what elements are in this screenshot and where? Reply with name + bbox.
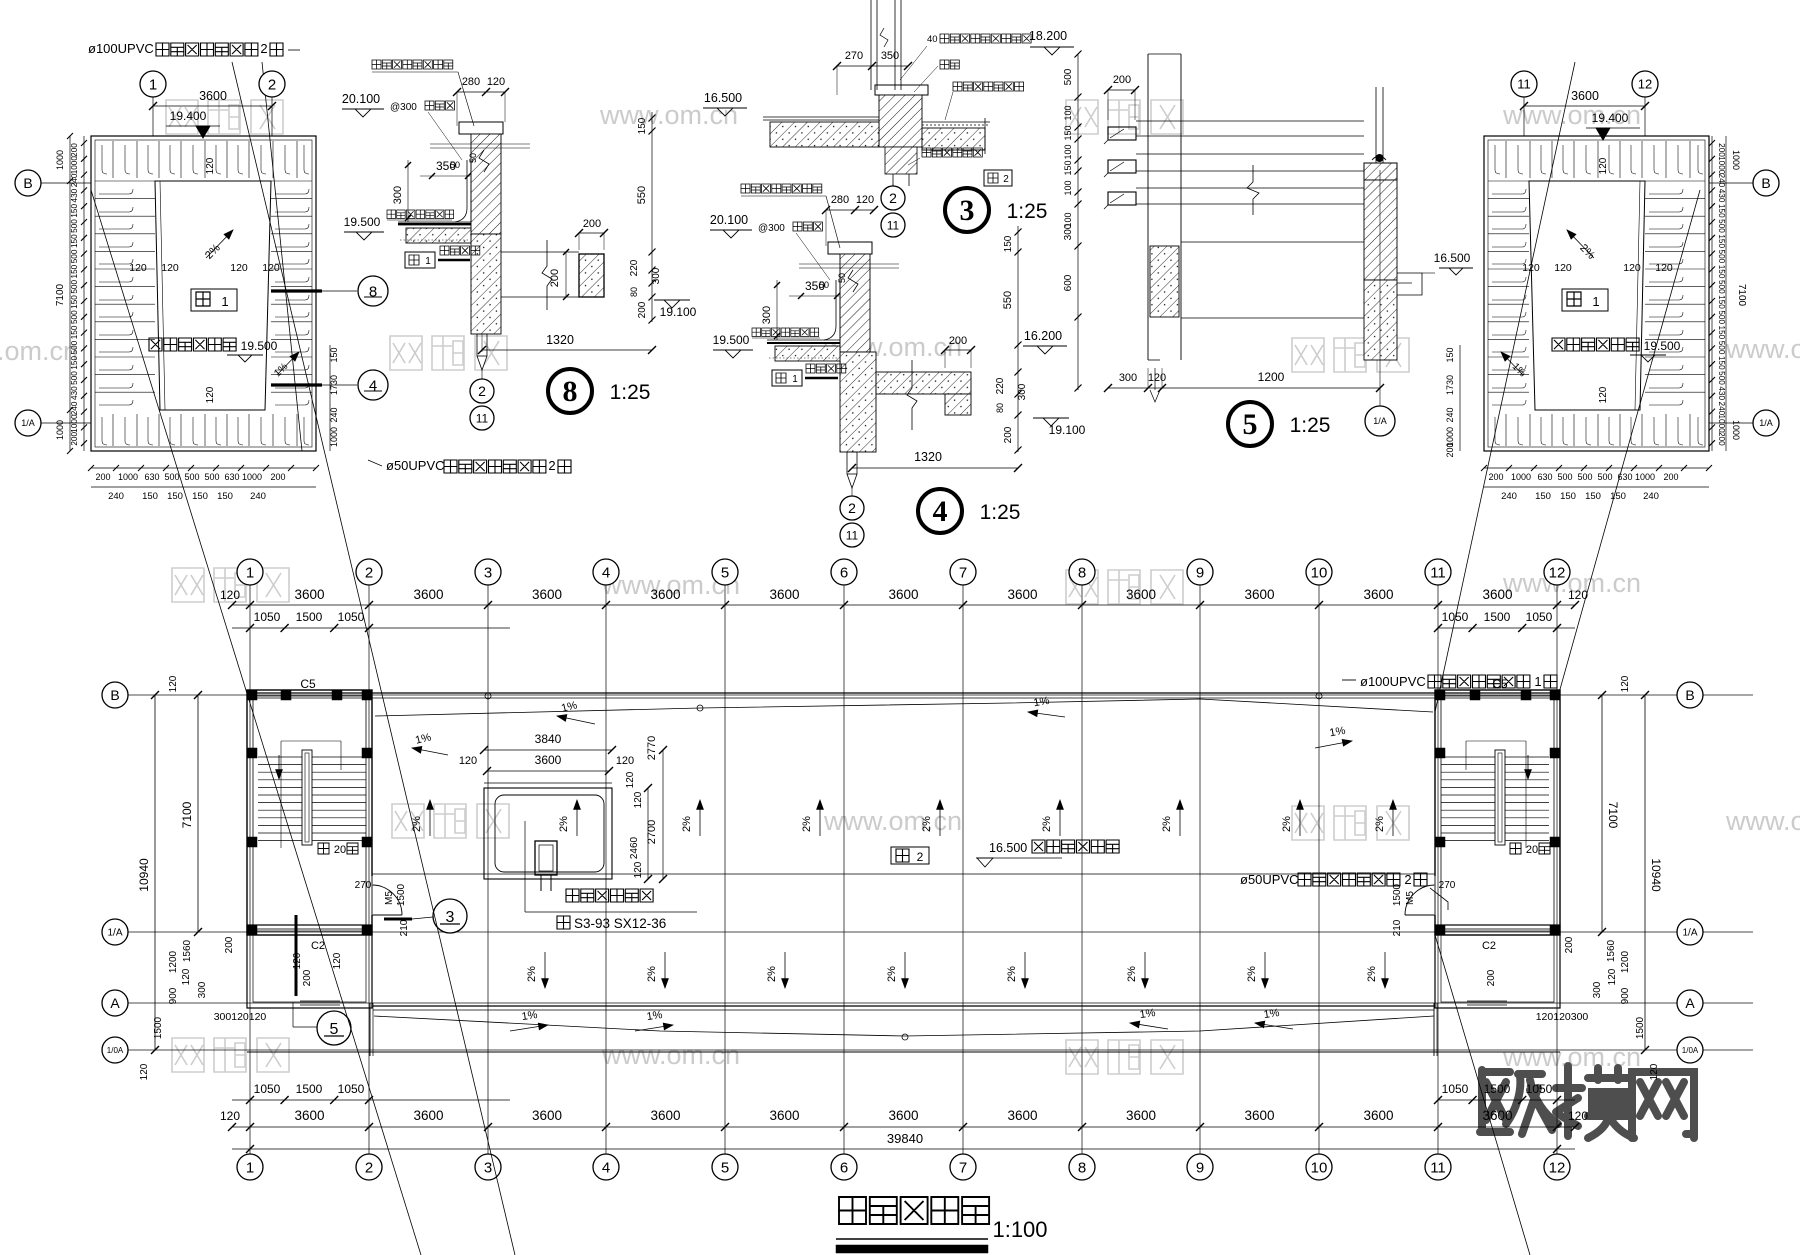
detail plan slope arrow 2pct	[1567, 230, 1594, 258]
D4 parapet wall hatched	[840, 254, 870, 352]
D3 parapet cap	[875, 85, 928, 95]
D4 left dims 350 300	[789, 295, 839, 297]
svg-text:3600: 3600	[769, 587, 799, 602]
svg-text:www.om.cn: www.om.cn	[1725, 334, 1800, 364]
svg-text:19.400: 19.400	[1592, 111, 1629, 125]
svg-text:900: 900	[1620, 987, 1631, 1004]
svg-text:500: 500	[1557, 472, 1572, 482]
svg-text:1:100: 1:100	[992, 1217, 1047, 1242]
svg-text:150: 150	[1535, 491, 1551, 502]
svg-text:B: B	[1761, 175, 1770, 191]
D4 parapet cap	[828, 242, 872, 254]
svg-text:150: 150	[217, 491, 233, 502]
svg-text:16.500: 16.500	[989, 841, 1027, 855]
svg-text:120: 120	[616, 755, 634, 767]
svg-text:150: 150	[1063, 125, 1073, 140]
svg-text:150: 150	[1717, 356, 1726, 370]
svg-text:S3-93 SX12-36: S3-93 SX12-36	[574, 916, 666, 931]
svg-text:120: 120	[1568, 1109, 1588, 1123]
TL dim 3600	[153, 105, 272, 107]
svg-text:3: 3	[484, 1159, 492, 1176]
svg-text:1: 1	[792, 374, 798, 385]
svg-text:500: 500	[1717, 250, 1726, 264]
top dimension row 3600s	[232, 604, 1575, 606]
svg-text:3600: 3600	[535, 753, 562, 767]
right tower inner wall	[1441, 696, 1554, 929]
svg-text:4: 4	[369, 377, 377, 394]
svg-text:50: 50	[450, 160, 460, 170]
svg-text:2%: 2%	[681, 816, 693, 832]
svg-text:2: 2	[478, 383, 486, 399]
svg-text:120: 120	[181, 968, 192, 985]
svg-text:3600: 3600	[1363, 1108, 1393, 1123]
svg-text:1200: 1200	[1258, 370, 1285, 384]
svg-text:3600: 3600	[888, 1108, 918, 1123]
svg-text:3600: 3600	[1244, 587, 1274, 602]
right vertical dim 10940	[1644, 695, 1646, 1050]
D5 1/A bubble	[1365, 406, 1395, 436]
right tower corner columns	[1435, 690, 1445, 700]
svg-text:1000: 1000	[1717, 414, 1726, 433]
svg-text:150: 150	[1560, 491, 1576, 502]
svg-text:200: 200	[549, 269, 561, 287]
svg-text:3600: 3600	[1571, 89, 1599, 103]
D8 slab lines wall to beam	[501, 251, 579, 253]
svg-text:9: 9	[1196, 1159, 1204, 1176]
row line B	[128, 694, 1753, 696]
svg-text:50: 50	[837, 273, 847, 283]
svg-text:100: 100	[1063, 105, 1073, 120]
svg-text:120: 120	[1623, 262, 1641, 274]
svg-text:150: 150	[1063, 160, 1073, 175]
svg-text:150: 150	[1717, 295, 1726, 309]
svg-text:500: 500	[70, 280, 79, 294]
svg-text:150: 150	[637, 117, 648, 134]
svg-text:120: 120	[129, 262, 147, 274]
D4 break line vertical right	[907, 360, 917, 430]
left stair label xia20ji	[318, 843, 329, 854]
roof label wu2 box	[891, 847, 929, 864]
svg-text:2%: 2%	[646, 966, 658, 982]
roof ridge line	[372, 873, 1435, 875]
tank access box	[535, 841, 557, 875]
svg-text:150: 150	[192, 491, 208, 502]
svg-text:2: 2	[268, 76, 276, 93]
svg-text:1000: 1000	[1511, 472, 1531, 482]
svg-text:C5: C5	[300, 677, 316, 691]
svg-text:2: 2	[848, 500, 856, 516]
svg-text:1/A: 1/A	[21, 418, 35, 428]
svg-text:B: B	[110, 687, 119, 703]
svg-text:120: 120	[1148, 372, 1166, 384]
svg-text:120: 120	[1554, 262, 1572, 274]
detail plan slope arrow 2pct	[206, 230, 233, 258]
svg-text:1:25: 1:25	[1007, 200, 1048, 223]
D8 drop pipe bottom	[477, 334, 487, 356]
TR right bubbles B and 1/A	[1709, 182, 1753, 184]
svg-text:www.om.cn: www.om.cn	[0, 336, 78, 366]
right stair stringer	[1495, 750, 1505, 845]
svg-text:12: 12	[1549, 1159, 1566, 1176]
svg-text:3600: 3600	[532, 1108, 562, 1123]
D4 dim 280 120	[826, 209, 874, 211]
svg-text:19.500: 19.500	[1644, 339, 1681, 353]
svg-text:120: 120	[332, 952, 343, 969]
svg-text:7100: 7100	[1736, 284, 1747, 307]
svg-text:150: 150	[1610, 491, 1626, 502]
svg-text:120: 120	[205, 386, 216, 403]
D5 right wall step out	[1397, 273, 1422, 295]
D8 membrane dotted	[400, 239, 470, 241]
svg-text:1: 1	[1592, 294, 1599, 309]
svg-text:1%: 1%	[646, 1009, 664, 1023]
svg-text:10940: 10940	[1649, 858, 1663, 892]
svg-text:1%: 1%	[1263, 1007, 1281, 1021]
svg-text:150: 150	[1003, 235, 1014, 252]
dark watermark MO (模)	[1556, 1066, 1634, 1138]
D8 left dims 350 300	[420, 175, 470, 177]
svg-text:2%: 2%	[1161, 816, 1173, 832]
2 percent slope arrows lower row	[544, 952, 546, 988]
svg-text:280: 280	[831, 194, 849, 206]
svg-text:5: 5	[1243, 408, 1258, 441]
svg-text:220: 220	[995, 377, 1006, 394]
svg-text:150: 150	[70, 356, 79, 370]
svg-text:10940: 10940	[137, 858, 151, 892]
section cut bar for marker 3	[384, 918, 412, 921]
svg-text:500: 500	[1063, 68, 1074, 85]
D8 beam 200x300	[579, 254, 604, 297]
svg-text:ø100UPVC: ø100UPVC	[1360, 674, 1426, 689]
svg-text:150: 150	[1585, 491, 1601, 502]
tank dim 3600	[487, 770, 609, 772]
D4 wu1 box and sealant	[772, 370, 802, 386]
svg-text:210: 210	[1392, 919, 1403, 936]
svg-text:80: 80	[995, 403, 1005, 413]
svg-text:150: 150	[167, 491, 183, 502]
roof plan top edge double line	[247, 692, 1560, 694]
svg-text:2: 2	[1404, 872, 1411, 887]
svg-text:630: 630	[1617, 472, 1632, 482]
svg-text:300: 300	[392, 186, 404, 204]
section marker circle 3 in plan	[433, 899, 467, 933]
svg-text:1:25: 1:25	[1290, 414, 1331, 437]
svg-text:3600: 3600	[1007, 1108, 1037, 1123]
TL left dim chains	[69, 136, 71, 451]
svg-text:1730: 1730	[1445, 375, 1455, 395]
svg-text:11: 11	[887, 218, 900, 232]
svg-text:200: 200	[1717, 432, 1726, 446]
svg-text:8: 8	[1078, 1159, 1086, 1176]
svg-text:7: 7	[959, 564, 967, 581]
svg-text:2%: 2%	[766, 966, 778, 982]
svg-text:20: 20	[1526, 844, 1538, 856]
D5 bottom dims 300 120 1200	[1108, 387, 1380, 389]
svg-text:3600: 3600	[294, 1108, 324, 1123]
svg-text:18.200: 18.200	[1029, 29, 1067, 43]
svg-text:C2: C2	[1482, 940, 1496, 952]
right stair down arrow	[1527, 755, 1529, 779]
svg-text:5: 5	[721, 1159, 729, 1176]
svg-text:300: 300	[1592, 981, 1603, 998]
svg-text:B: B	[23, 175, 32, 191]
svg-text:220: 220	[629, 259, 640, 276]
svg-text:2%: 2%	[1041, 816, 1053, 832]
detail plan room label wu1	[191, 289, 237, 311]
svg-text:120: 120	[633, 791, 644, 808]
svg-text:120: 120	[1649, 1063, 1660, 1080]
svg-text:200: 200	[1113, 74, 1131, 86]
svg-text:2%: 2%	[1006, 966, 1018, 982]
svg-text:80: 80	[629, 287, 639, 297]
D4 big detail circle 4 1:25	[918, 489, 962, 533]
svg-text:1000: 1000	[1635, 472, 1655, 482]
title text wudingpingmiantu	[839, 1197, 989, 1224]
svg-text:1050: 1050	[254, 1082, 281, 1096]
svg-text:200: 200	[583, 218, 601, 230]
light watermark row 3	[172, 568, 289, 602]
svg-text:550: 550	[636, 186, 648, 204]
tank dim 3840	[484, 749, 612, 751]
svg-text:3600: 3600	[1126, 587, 1156, 602]
svg-text:20: 20	[334, 844, 346, 856]
svg-text:200: 200	[70, 432, 79, 446]
row line 1/0A	[128, 1049, 1753, 1051]
left stair treads	[258, 756, 366, 758]
D4 label gaofenzi sealing	[741, 184, 822, 193]
svg-text:120: 120	[1598, 157, 1609, 174]
D8 wall inner face line	[470, 160, 472, 222]
svg-text:11: 11	[1430, 564, 1446, 581]
svg-text:500: 500	[70, 310, 79, 324]
svg-text:16.500: 16.500	[704, 91, 742, 105]
detail plan 1pct arrow	[277, 352, 299, 375]
svg-text:270: 270	[1439, 880, 1456, 891]
svg-text:240: 240	[1643, 491, 1659, 502]
svg-text:20.100: 20.100	[710, 213, 748, 227]
tank vertical dims	[647, 788, 649, 879]
svg-text:1:25: 1:25	[610, 381, 651, 404]
D3 roof slab right	[922, 128, 985, 150]
left annex window C2	[300, 1000, 340, 1002]
svg-text:200: 200	[1663, 472, 1678, 482]
row line A	[128, 1002, 1753, 1004]
svg-text:1/A: 1/A	[1373, 416, 1387, 426]
svg-text:100: 100	[1063, 180, 1073, 195]
svg-text:500: 500	[70, 249, 79, 263]
D3 ref circles 2 11	[881, 186, 905, 210]
svg-text:3600: 3600	[532, 587, 562, 602]
svg-text:M5: M5	[1405, 891, 1416, 905]
drain circle on line B	[485, 693, 491, 699]
left tower inner wall	[253, 696, 366, 929]
top sub-dimension 1050 1500 1050 right tower	[1438, 627, 1575, 629]
svg-text:270: 270	[355, 880, 372, 891]
svg-text:8: 8	[563, 375, 578, 408]
svg-text:240: 240	[1445, 407, 1455, 422]
svg-text:16.200: 16.200	[1024, 329, 1062, 343]
svg-text:19.400: 19.400	[170, 109, 207, 123]
svg-text:ø50UPVC: ø50UPVC	[386, 458, 445, 473]
D5 right wall thin verticals	[1375, 87, 1377, 163]
svg-text:600: 600	[1063, 274, 1074, 291]
svg-text:120: 120	[1598, 386, 1609, 403]
D8 big detail circle 8 1:25	[548, 369, 592, 413]
D8 beam dim 200	[579, 232, 604, 234]
D5 right wall hatched	[1364, 180, 1397, 280]
svg-text:200: 200	[302, 969, 313, 986]
svg-text:1/A: 1/A	[107, 928, 122, 939]
D5 slab lines	[1181, 241, 1364, 243]
roof water tank inner	[495, 795, 604, 872]
top sub-dimension 1050 1500 1050 left tower	[232, 627, 510, 629]
detail plan inner boundary	[155, 181, 271, 410]
detail plan level 19.500 structural	[1552, 338, 1639, 351]
D5 pipe symbol below column	[1154, 368, 1156, 390]
svg-text:300: 300	[197, 981, 208, 998]
TL right chain 1730 etc	[329, 345, 331, 451]
svg-text:120: 120	[625, 771, 636, 788]
D3 roof slab left	[770, 122, 879, 147]
svg-text:1: 1	[149, 76, 157, 93]
1 percent arrows top area	[412, 748, 448, 755]
svg-text:3600: 3600	[888, 587, 918, 602]
D8 parapet wall hatched	[471, 134, 501, 234]
svg-text:150: 150	[142, 491, 158, 502]
D8 ref circles 2 and 11	[470, 379, 494, 403]
svg-text:19.100: 19.100	[660, 305, 697, 319]
svg-text:150: 150	[1717, 204, 1726, 218]
svg-text:2%: 2%	[801, 816, 813, 832]
svg-text:2: 2	[365, 1159, 373, 1176]
svg-text:4: 4	[602, 564, 610, 581]
svg-text:2460: 2460	[629, 836, 640, 859]
svg-text:3600: 3600	[1482, 587, 1512, 602]
svg-text:500: 500	[204, 472, 219, 482]
detail plan inner boundary	[1529, 181, 1645, 410]
D3 label huqiang	[940, 60, 959, 69]
D4 ref circles 2 and 11	[840, 496, 864, 520]
svg-text:M5: M5	[384, 891, 395, 905]
light watermark row 5	[172, 1038, 289, 1072]
svg-text:1500: 1500	[153, 1016, 164, 1039]
svg-text:2: 2	[917, 850, 924, 864]
D3 wall verticals top	[870, 0, 872, 90]
dark watermark WANG (网)	[1632, 1072, 1694, 1138]
TL section cut circle 4	[271, 383, 322, 386]
svg-text:39840: 39840	[887, 1131, 923, 1146]
left stair handrail outline	[281, 740, 341, 742]
svg-text:300: 300	[1119, 372, 1137, 384]
D3 label waterproof addition	[953, 82, 1024, 91]
svg-text:8: 8	[1078, 564, 1086, 581]
svg-text:2%: 2%	[1374, 816, 1386, 832]
TR left chain 1730 etc	[1459, 345, 1461, 451]
svg-text:1/A: 1/A	[1759, 418, 1773, 428]
svg-text:210: 210	[399, 919, 410, 936]
svg-text:2%: 2%	[1246, 966, 1258, 982]
svg-text:550: 550	[1002, 291, 1014, 309]
section cut bar for marker 5	[295, 915, 298, 996]
D4 top horizontal lines through wall	[799, 263, 899, 265]
svg-text:500: 500	[1577, 472, 1592, 482]
svg-text:240: 240	[108, 491, 124, 502]
svg-text:240: 240	[1717, 174, 1726, 188]
svg-text:500: 500	[1717, 219, 1726, 233]
svg-text:7100: 7100	[55, 283, 66, 306]
svg-text:120: 120	[230, 262, 248, 274]
svg-text:900: 900	[168, 987, 179, 1004]
svg-text:3: 3	[484, 564, 492, 581]
plan grid bubbles bottom	[237, 1154, 263, 1180]
svg-text:2%: 2%	[886, 966, 898, 982]
plan vertical grid lines 1-12	[249, 585, 251, 1155]
svg-text:2: 2	[260, 41, 267, 56]
detail plan outer rect	[1484, 136, 1709, 451]
svg-text:10: 10	[1311, 564, 1328, 581]
section marker circle 5 in plan	[317, 1011, 351, 1045]
D4 break symbol in wall	[848, 270, 858, 292]
svg-text:2770: 2770	[646, 736, 658, 760]
svg-text:2: 2	[548, 458, 555, 473]
svg-text:1050: 1050	[338, 1082, 365, 1096]
svg-text:200: 200	[70, 143, 79, 157]
long leader diagonals right	[1557, 190, 1700, 700]
svg-text:2%: 2%	[558, 816, 570, 832]
left stair stringer	[302, 750, 312, 845]
D8 label gaofenzi sealing	[372, 60, 453, 69]
svg-text:500: 500	[1717, 310, 1726, 324]
svg-text:3600: 3600	[413, 1108, 443, 1123]
left annex door M5 arc	[372, 885, 402, 915]
right annex wall	[1435, 925, 1560, 1008]
bottom total dim 39840	[232, 1148, 1575, 1150]
svg-text:150: 150	[70, 295, 79, 309]
svg-text:1050: 1050	[1526, 610, 1553, 624]
svg-text:1050: 1050	[1526, 1082, 1553, 1096]
TR bubbles 11 and 12 with leaders	[1523, 97, 1525, 136]
svg-text:200: 200	[270, 472, 285, 482]
bottom sub-dimension right	[1438, 1099, 1575, 1101]
svg-text:1500: 1500	[296, 1082, 323, 1096]
right stair handrail outline	[1466, 740, 1526, 742]
svg-text:240: 240	[1501, 491, 1517, 502]
2 percent slope arrows upper row	[429, 800, 431, 836]
svg-text:430: 430	[1717, 189, 1726, 203]
svg-text:2%: 2%	[921, 816, 933, 832]
D4 right dim chain	[1017, 226, 1019, 452]
TR bottom dim chains	[1484, 467, 1709, 469]
left stair down arrow	[278, 755, 280, 779]
detail plan outer rect	[91, 136, 316, 451]
svg-text:3600: 3600	[1126, 1108, 1156, 1123]
D8 leader text o50UPVC	[368, 460, 382, 466]
svg-text:500: 500	[1717, 371, 1726, 385]
D8 roof slab left	[406, 228, 471, 243]
TL bubbles 1 and 2 with leaders	[152, 97, 154, 136]
svg-text:11: 11	[846, 528, 859, 542]
svg-text:150: 150	[1445, 347, 1455, 362]
svg-text:120: 120	[220, 1109, 240, 1123]
svg-text:120: 120	[633, 861, 644, 878]
svg-text:150: 150	[70, 234, 79, 248]
svg-text:2%: 2%	[1281, 816, 1293, 832]
TL left bubbles B and 1/A	[41, 182, 91, 184]
svg-text:120: 120	[856, 194, 874, 206]
dark watermark OU (欧)	[1480, 1070, 1558, 1134]
svg-text:3600: 3600	[413, 587, 443, 602]
svg-text:A: A	[1685, 995, 1695, 1011]
